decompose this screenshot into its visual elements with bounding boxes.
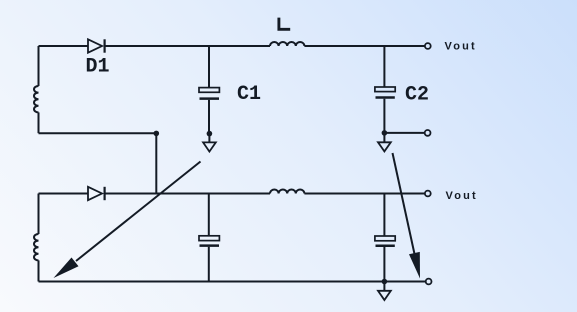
wire bottom rail middle segment (105, 193, 270, 195)
wire bottom return rail (39, 281, 426, 283)
terminal Vout top (425, 43, 431, 49)
capacitor C2 (375, 87, 395, 98)
label Vout top (445, 41, 477, 53)
wire to ground return terminal top (384, 132, 424, 134)
svg-text:C2: C2 (405, 84, 429, 107)
wire C2 upper lead (383, 46, 385, 87)
label L (279, 18, 290, 30)
wire C1 lower lead (208, 100, 210, 134)
label D1 (85, 56, 109, 79)
terminal Vout bottom (425, 191, 431, 197)
ground bottom (378, 282, 391, 301)
wire top left rail lower (38, 112, 40, 133)
inductor primary bottom (34, 234, 39, 260)
wire top left rail upper (38, 46, 40, 86)
junction dot bottom rail (382, 279, 388, 285)
terminal return top (425, 130, 431, 136)
capacitor C3 (199, 236, 219, 246)
inductor L2 (270, 189, 304, 193)
inductor primary top (34, 86, 39, 112)
wire top rail left segment (39, 45, 89, 47)
wire bottom left rail lower (38, 260, 40, 281)
ground under C1 (203, 134, 216, 152)
arrow annotation 1 (54, 162, 201, 279)
wire C3 lower lead (208, 247, 210, 282)
diode D2 (88, 187, 105, 200)
wire C1 upper lead (208, 46, 210, 88)
wire top rail middle segment (105, 45, 270, 47)
wire top return segment (39, 132, 157, 134)
wire C2 lower lead (383, 99, 385, 133)
terminal return bottom (426, 279, 432, 285)
wire link to lower circuit (155, 133, 157, 193)
junction dot under C2 (382, 130, 388, 136)
junction node A (154, 131, 160, 137)
arrow annotation 2 (393, 153, 421, 279)
ground under C2 (378, 133, 391, 152)
svg-text:Vout: Vout (445, 41, 477, 53)
wire bottom rail left segment (39, 193, 89, 195)
label C2 (405, 84, 429, 107)
label C1 (237, 83, 261, 106)
svg-text:D1: D1 (85, 56, 109, 79)
wire top rail right segment (304, 45, 424, 47)
capacitor C1 (199, 88, 219, 99)
wire C4 lower lead (383, 247, 385, 282)
wire C3 upper lead (208, 194, 210, 236)
wire bottom left rail upper (38, 194, 40, 235)
label Vout bottom (446, 190, 478, 202)
svg-text:C1: C1 (237, 83, 261, 106)
junction dot under C1 (207, 131, 213, 137)
diode D1 (88, 39, 105, 52)
capacitor C4 (375, 236, 395, 246)
wire bottom rail right segment (304, 193, 424, 195)
wire C4 upper lead (383, 194, 385, 237)
svg-text:Vout: Vout (446, 190, 478, 202)
inductor L (270, 42, 304, 46)
